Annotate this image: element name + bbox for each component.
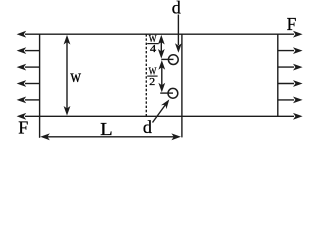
- svg-text:4: 4: [150, 43, 157, 55]
- plate top edge with end load arrows: [17, 31, 303, 38]
- right load arrow 5: [278, 97, 303, 104]
- plate bottom edge with end load arrows: [17, 113, 303, 120]
- W/2 fraction bar: [147, 75, 157, 77]
- hole 1 circle: [168, 55, 178, 65]
- hole 1 center tick: [161, 58, 173, 60]
- svg-text:w: w: [70, 66, 81, 86]
- left load arrow 3: [17, 64, 40, 71]
- top d leader arrow (down to hole 1): [175, 15, 182, 53]
- plate left edge (extended down as L-dimension extension line): [39, 34, 41, 138]
- svg-text:L: L: [100, 119, 113, 139]
- w dimension double arrow: [64, 35, 71, 116]
- hole 2 center tick: [160, 92, 173, 94]
- plate right edge: [277, 34, 279, 116]
- solid section line through holes (extended down to L dimension): [181, 34, 183, 137]
- svg-text:F: F: [18, 118, 28, 138]
- W/2 dimension double arrow: [158, 60, 165, 92]
- svg-text:F: F: [287, 14, 297, 34]
- left load arrow 4: [17, 80, 40, 87]
- right load arrow 2: [278, 47, 303, 54]
- right load arrow 4: [278, 80, 303, 87]
- svg-text:d: d: [143, 117, 152, 137]
- bottom d leader arrow (up to hole 2): [153, 99, 170, 122]
- svg-text:2: 2: [149, 76, 155, 88]
- left load arrow 5: [17, 97, 40, 104]
- svg-text:d: d: [172, 0, 181, 18]
- dotted hole centerline: [145, 34, 147, 116]
- left load arrow 2: [17, 47, 40, 54]
- L dimension double arrow: [40, 133, 181, 140]
- W/4 dimension double arrow: [158, 35, 165, 59]
- right load arrow 3: [278, 64, 303, 71]
- hole 2 circle: [168, 88, 178, 98]
- W/4 fraction bar: [147, 43, 158, 45]
